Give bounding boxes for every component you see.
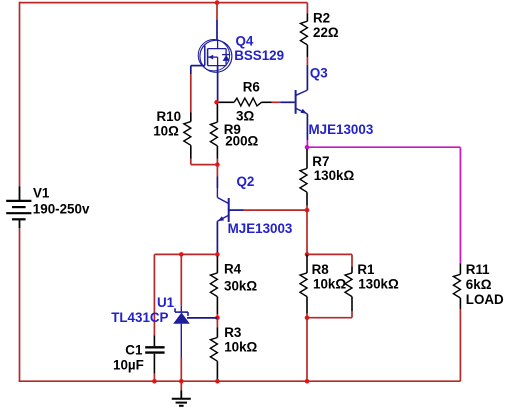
svg-text:R11: R11 — [466, 262, 490, 277]
label R11 LOAD — [466, 292, 504, 307]
label R9 value 200Ω — [225, 134, 258, 149]
transistor Q2 (NPN, mirrored) — [217, 188, 228, 222]
svg-text:LOAD: LOAD — [466, 292, 504, 307]
label U1 type TL431CP — [111, 310, 168, 325]
svg-text:R3: R3 — [224, 325, 241, 340]
svg-text:30kΩ: 30kΩ — [224, 278, 257, 293]
ground — [172, 391, 191, 406]
label Q4 type BSS129 — [234, 48, 284, 63]
label R6 value 3Ω — [236, 109, 254, 124]
wire: magenta feedback to load — [307, 147, 460, 263]
wire: Q2 emitter navy — [216, 221, 218, 254]
resistor R6 — [219, 98, 272, 106]
label R6 — [243, 79, 260, 94]
wire: C1 bottom red — [153, 374, 155, 382]
voltage source V1 — [6, 187, 31, 229]
svg-text:C1: C1 — [125, 343, 143, 358]
transistor Q4 (BSS129 MOSFET) — [198, 40, 232, 73]
wire: Q2 base red — [244, 209, 308, 211]
label R9 — [224, 122, 241, 137]
label R1 — [357, 262, 375, 277]
junction: top bus / Q4 drain — [215, 0, 220, 5]
junction: U1 cathode node — [179, 252, 184, 257]
junction: bus / C1 — [152, 379, 157, 384]
wire: Q4 drain navy — [216, 20, 218, 41]
svg-text:R1: R1 — [357, 262, 375, 277]
wire: Q3 emitter magenta stub — [306, 140, 308, 147]
svg-text:10kΩ: 10kΩ — [224, 339, 257, 354]
label R10 value 10Ω — [153, 124, 179, 139]
svg-text:MJE13003: MJE13003 — [309, 122, 374, 137]
wire: gate to R10 red — [190, 74, 192, 113]
svg-text:10Ω: 10Ω — [153, 124, 179, 139]
svg-text:130kΩ: 130kΩ — [358, 276, 399, 291]
label Q3 type MJE13003 — [309, 122, 374, 137]
junction: bus / R3 — [215, 379, 220, 384]
junction: Q2 emitter / R4 node — [215, 252, 220, 257]
resistor R8 — [300, 254, 307, 317]
svg-text:R4: R4 — [224, 262, 242, 277]
junction: R4/R3/U1-ref node — [215, 315, 220, 320]
label R11 value 6kΩ — [466, 277, 492, 292]
resistor R3 — [210, 318, 217, 382]
svg-text:U1: U1 — [157, 295, 175, 310]
svg-text:R8: R8 — [312, 262, 330, 277]
resistor R9 — [210, 104, 217, 159]
label Q2 — [237, 174, 255, 189]
capacitor C1 — [145, 336, 164, 374]
wire: ground stub red — [180, 381, 182, 390]
svg-text:200Ω: 200Ω — [225, 134, 258, 149]
wire: Q2 base navy — [229, 209, 244, 211]
label R7 value 130kΩ — [314, 168, 355, 183]
junction: R8 top node — [305, 252, 310, 257]
wire: R11 bottom red — [459, 309, 461, 381]
label R7 — [312, 154, 329, 169]
shunt regulator U1 (TL431CP) — [173, 306, 190, 358]
svg-text:V1: V1 — [33, 186, 50, 201]
svg-text:R10: R10 — [157, 109, 182, 124]
junction: Q2 base / R7 node — [305, 208, 310, 213]
svg-text:R2: R2 — [313, 11, 330, 26]
label C1 value 10µF — [113, 358, 144, 373]
wire: top V+ bus — [20, 2, 308, 4]
label V1 — [33, 186, 50, 201]
svg-text:R7: R7 — [312, 154, 329, 169]
wire: Q4 gate navy — [191, 66, 205, 74]
label R1 value 130kΩ — [358, 276, 399, 291]
wire: R7 bottom red — [306, 206, 308, 211]
svg-text:22Ω: 22Ω — [313, 25, 339, 40]
wire: Q4 drain red — [216, 3, 218, 20]
label U1 — [157, 295, 175, 310]
junction: bottom bus / R8 column — [305, 379, 310, 384]
label Q4 — [236, 34, 254, 49]
resistor R7 — [300, 149, 307, 206]
wire: R7 node down to R8 — [306, 210, 308, 254]
resistor R11 (load) — [453, 264, 460, 310]
wire: R8 bottom to bus — [306, 318, 308, 382]
svg-text:TL431CP: TL431CP — [111, 310, 168, 325]
svg-text:190-250v: 190-250v — [33, 202, 90, 217]
label R4 value 30kΩ — [224, 278, 257, 293]
wire: node to Q2 collector — [216, 165, 218, 188]
label V1 value 190-250v — [33, 202, 90, 217]
svg-text:Q2: Q2 — [237, 174, 255, 189]
wire: R1 top loop — [307, 254, 352, 266]
svg-text:MJE13003: MJE13003 — [228, 221, 293, 236]
wire: Q4 source navy — [217, 66, 219, 101]
junction: R8 bottom node — [305, 315, 310, 320]
wire: U1 reference to divider — [187, 317, 217, 319]
label R8 — [312, 262, 330, 277]
svg-text:BSS129: BSS129 — [234, 48, 284, 63]
label R3 value 10kΩ — [224, 339, 257, 354]
label Q2 type MJE13003 — [228, 221, 293, 236]
label R2 value 22Ω — [313, 25, 339, 40]
svg-text:Q3: Q3 — [310, 66, 328, 81]
wire: bottom ground bus — [19, 380, 461, 382]
wire: U1 anode red — [180, 358, 182, 382]
label R3 — [224, 325, 241, 340]
svg-text:R6: R6 — [243, 79, 260, 94]
svg-text:6kΩ: 6kΩ — [466, 277, 492, 292]
wire: R2 top stub red — [306, 3, 308, 14]
svg-text:Q4: Q4 — [236, 34, 254, 49]
junction: bus / ground — [179, 379, 184, 384]
wire: R6 to Q3 base — [272, 101, 295, 103]
wire: C1 branch red — [153, 254, 155, 335]
label C1 — [125, 343, 143, 358]
svg-text:10µF: 10µF — [113, 358, 144, 373]
svg-text:130kΩ: 130kΩ — [314, 168, 355, 183]
wire: left battery branch upper — [19, 2, 21, 187]
label R10 — [157, 109, 182, 124]
wire: Q3 emitter navy — [306, 114, 308, 140]
junction: R9/R10 bottom node — [215, 162, 220, 167]
label R2 — [313, 11, 330, 26]
label Q3 — [310, 66, 328, 81]
wire: R9 bottom red — [216, 159, 218, 165]
wire: R10 bottom red — [191, 159, 218, 165]
wire: Q2 emitter node horizontal — [154, 253, 217, 255]
wire: R1 bottom loop — [307, 311, 352, 318]
transistor Q3 (NPN) — [296, 90, 308, 114]
wire: U1 cathode red — [180, 254, 182, 305]
wire: left battery branch lower — [19, 228, 21, 381]
label R11 — [466, 262, 490, 277]
junction: Q4 source / R6 / R9 node — [214, 100, 219, 105]
wire: R2 to Q3 collector — [306, 57, 308, 90]
resistor R10 — [184, 113, 191, 159]
label R4 — [224, 262, 242, 277]
label R8 value 10kΩ — [313, 276, 346, 291]
resistor R2 — [300, 14, 307, 58]
resistor R4 — [210, 256, 217, 318]
svg-text:10kΩ: 10kΩ — [313, 276, 346, 291]
resistor R1 — [345, 267, 352, 312]
junction: feedback node (magenta) — [305, 145, 310, 150]
